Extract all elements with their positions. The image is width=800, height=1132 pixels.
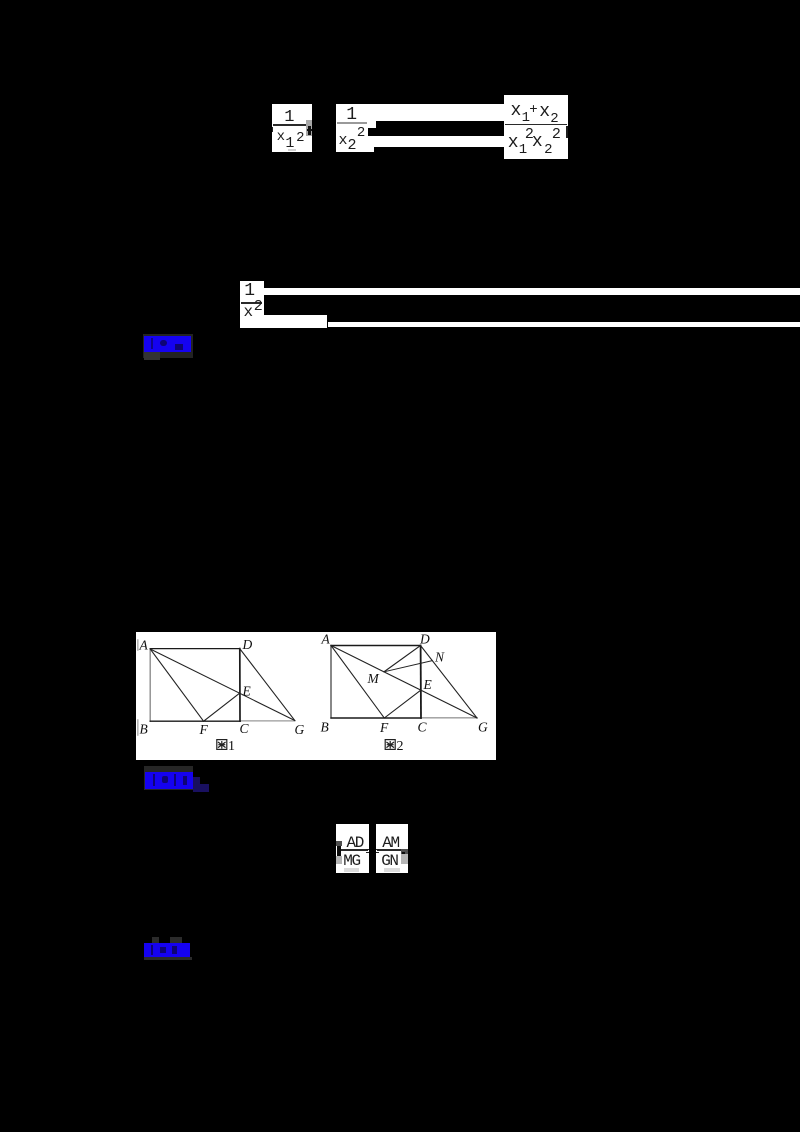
MG denominator — [343, 853, 359, 869]
GN denominator — [381, 853, 397, 869]
top long strip — [264, 288, 800, 295]
fraction box AM/GN — [376, 824, 408, 873]
fig2 bottom BC — [331, 717, 421, 719]
caption 图1 — [217, 740, 227, 750]
blue label 1 backdrop — [143, 334, 193, 358]
fraction bar box1 — [273, 124, 306, 126]
svg-text:C: C — [418, 720, 428, 735]
svg-text:D: D — [242, 637, 253, 652]
black redaction bar inside strip — [376, 121, 504, 137]
svg-text:F: F — [199, 722, 209, 737]
blue label 2 glyph marks — [153, 774, 155, 786]
fig1 segment FE — [204, 693, 240, 721]
gray tick left of A label — [137, 640, 139, 650]
fig2 extension CG (gray) — [421, 717, 477, 719]
small dark mark left edge box1 — [272, 127, 274, 133]
denominator x1^2 x2^2 — [508, 134, 519, 152]
fraction box (x1+x2)/(x1^2 x2^2) — [504, 95, 569, 159]
svg-text:E: E — [242, 684, 252, 699]
fig1 diagonal AF — [150, 649, 203, 721]
denominator x of 1/x^2 — [244, 304, 254, 320]
fraction box 1/x2^2 with strips — [336, 104, 504, 147]
svg-text:F: F — [379, 720, 389, 735]
blue label 2 backdrop — [144, 766, 193, 790]
fig1 vertical DC — [239, 649, 241, 722]
subscript 1 of box1 — [285, 136, 294, 151]
fig2 segment MN — [384, 661, 432, 672]
svg-text:M: M — [367, 671, 380, 686]
svg-text:G: G — [295, 722, 305, 737]
gray block below blue label 1 — [144, 352, 160, 361]
fig2 vertical DC — [420, 646, 422, 719]
fig2 diagonal DG — [421, 646, 478, 719]
right gray artifacts of AM/GN box — [401, 849, 408, 855]
fraction box 1/x1^2 — [272, 104, 312, 153]
superscript 2 of box1 — [296, 131, 304, 145]
subscript 2 of box2 — [348, 138, 357, 153]
svg-text:D: D — [419, 632, 430, 647]
AM numerator — [382, 835, 398, 851]
plus mark right edge box1 — [307, 129, 312, 132]
fig1 side AB (gray) — [149, 649, 151, 721]
numerator 1 of box1 — [284, 109, 294, 126]
fig2 side AB — [330, 646, 332, 719]
gray square right edge box1 — [306, 120, 312, 136]
gray band below blue label 3 — [144, 957, 192, 960]
denominator x of box1 — [277, 130, 285, 144]
fig2 top AD — [331, 645, 421, 647]
closing parenthesis mark at right edge box3 — [566, 126, 568, 138]
svg-text:1: 1 — [228, 739, 235, 754]
blue label 2 — [145, 772, 193, 789]
fraction 1/x^2 with long strips — [240, 281, 264, 328]
fig2 diagonal AF — [331, 646, 384, 719]
svg-text:2: 2 — [397, 739, 404, 754]
left gray artifacts of AD/MG box — [336, 841, 342, 847]
fig2 diagonal AG — [331, 646, 477, 719]
blue label 1 — [144, 336, 191, 352]
light tick bottom box1 — [288, 149, 296, 151]
fig1 diagonal DG — [240, 649, 295, 721]
svg-text:B: B — [140, 722, 148, 737]
svg-text:G: G — [478, 720, 488, 735]
svg-text:A: A — [321, 632, 331, 647]
superscript 2 of 1/x^2 — [254, 299, 263, 314]
figure panel — [136, 632, 496, 760]
bottom wide piece — [264, 315, 328, 328]
fraction bar box2 — [337, 122, 368, 124]
blue label 3 — [144, 943, 190, 957]
fig1 extension CG (gray) — [240, 720, 295, 722]
blue label 1 glyph marks — [151, 338, 153, 349]
fig2 segment FE — [384, 690, 421, 718]
bar of AD/MG — [337, 849, 368, 851]
numerator x1+x2 — [511, 102, 522, 120]
gray tick left of B label — [137, 720, 139, 735]
svg-text:E: E — [423, 677, 433, 692]
svg-text:A: A — [139, 638, 149, 653]
fig2 segment DM — [384, 646, 421, 672]
equals sign fragments between boxes — [366, 849, 369, 850]
numerator 1 of 1/x^2 — [244, 282, 255, 300]
bottom long thin strip — [328, 322, 800, 328]
svg-text:N: N — [434, 650, 445, 665]
denominator x of box2 — [339, 133, 348, 148]
fraction box AD/MG — [336, 824, 369, 873]
gray marks above blue label 3 — [152, 937, 159, 944]
superscript 2 of box2 — [357, 126, 365, 140]
fraction bar 1/x^2 — [241, 302, 262, 304]
navy block right of blue label 2 — [193, 777, 200, 792]
svg-text:B: B — [321, 720, 329, 735]
fraction bar box3 — [505, 124, 567, 126]
caption 图2 — [385, 740, 395, 750]
svg-text:C: C — [240, 721, 250, 736]
AD numerator — [347, 835, 363, 851]
bar of AM/GN — [377, 849, 407, 851]
numerator 1 of box2 — [346, 106, 357, 124]
fig1 diagonal AG — [150, 649, 295, 721]
fig1 bottom BC — [150, 720, 240, 722]
blue label 3 glyph marks — [151, 945, 153, 955]
fig1 top AD — [150, 648, 240, 650]
